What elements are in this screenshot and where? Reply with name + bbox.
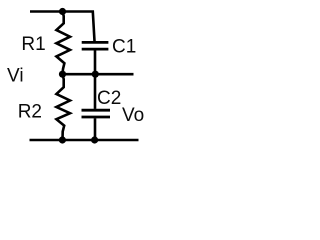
svg-text:C1: C1 [112,37,136,58]
svg-text:Vo: Vo [122,105,144,126]
junction dot middle right (C1/C2) [92,71,99,78]
junction dot bottom left (R2 gnd) [59,136,66,143]
svg-text:Vi: Vi [7,66,24,87]
svg-text:R2: R2 [18,102,42,123]
wire bottom rail (Vi- to Vo-) [30,139,139,142]
svg-text:C2: C2 [97,88,121,109]
svg-text:R1: R1 [21,34,45,55]
capacitor C2 [82,74,111,140]
capacitor C1 [82,42,109,74]
wire top rail (Vi+ to C1 top) [30,12,95,43]
junction dot bottom right (C2 gnd) [91,136,98,143]
junction dot middle left (R1/R2) [59,71,66,78]
wire middle rail (node to Vo+) [63,73,134,76]
resistor R2 [56,74,70,140]
resistor R1 [56,12,70,75]
junction dot top node (R1/C1) [59,8,66,15]
